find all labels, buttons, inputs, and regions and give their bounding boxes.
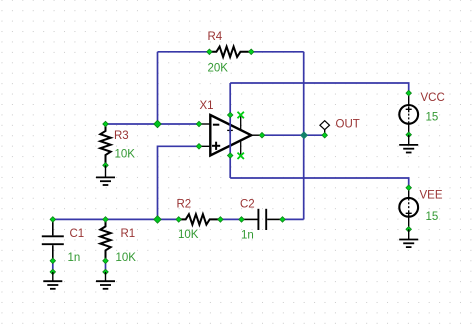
wire plus-input to bottom rail (158, 146, 200, 219)
wire bottom rail (53, 218, 179, 220)
ground at R3 (96, 165, 115, 185)
wire output column vertical (303, 52, 305, 220)
ground at VEE (399, 229, 418, 247)
op-amp output terminal (259, 132, 265, 138)
op-amp X1 (199, 115, 262, 156)
wire VCC rail (230, 83, 409, 93)
no-connect marker top pin (238, 112, 244, 118)
svg-text:15: 15 (426, 211, 439, 223)
svg-text:R2: R2 (177, 199, 192, 211)
voltage source VEE V2 (399, 185, 418, 232)
wire VEE rail (230, 178, 409, 188)
svg-text:X1: X1 (200, 100, 214, 112)
svg-text:R1: R1 (121, 228, 136, 240)
resistor R1 (100, 217, 110, 264)
node OUT terminal (322, 132, 328, 138)
svg-text:R3: R3 (114, 130, 129, 142)
no-connect marker bottom pin (238, 153, 244, 159)
ground at VCC (399, 135, 418, 153)
wire op-amp output to OUT node (262, 134, 325, 136)
wire R4 right to output column (251, 51, 304, 53)
resistor R3 (100, 121, 110, 168)
op-amp input terminal plus (196, 144, 202, 150)
voltage source VCC V1 (399, 90, 418, 137)
wire minus-input rail (106, 123, 200, 125)
svg-text:10K: 10K (116, 252, 137, 264)
node minus-input junction (154, 120, 162, 128)
wire op-amp supply vertical (229, 83, 231, 178)
svg-text:VEE: VEE (420, 189, 443, 201)
wire R1 ground stub (105, 261, 107, 272)
svg-text:C2: C2 (240, 199, 255, 211)
wire C1 ground stub (52, 261, 54, 272)
svg-text:10K: 10K (178, 229, 199, 241)
svg-text:C1: C1 (70, 228, 85, 240)
node bottom junction (154, 216, 162, 224)
wire R2 to C2 (220, 218, 241, 220)
op-amp V+ terminal (227, 112, 233, 118)
resistor R4 (207, 47, 254, 57)
wire to R4 left (158, 51, 210, 53)
resistor R2 (176, 214, 223, 224)
svg-text:VCC: VCC (421, 92, 445, 104)
svg-text:R4: R4 (208, 31, 223, 43)
capacitor C1 (42, 217, 64, 264)
op-amp input terminal minus (196, 121, 202, 127)
svg-text:15: 15 (426, 112, 439, 124)
svg-text:1n: 1n (68, 252, 81, 264)
svg-text:OUT: OUT (336, 118, 360, 130)
capacitor C2 (239, 209, 286, 230)
svg-text:20K: 20K (208, 63, 229, 75)
svg-text:1n: 1n (241, 230, 254, 242)
output probe OUT (320, 121, 330, 136)
ground at R1 (96, 269, 115, 289)
wire C2 to output column (283, 218, 304, 220)
svg-text:10K: 10K (115, 149, 136, 161)
node output junction (300, 131, 308, 139)
ground at C1 (43, 269, 62, 289)
op-amp V- terminal (227, 153, 233, 159)
wire feedback up from minus node (157, 52, 159, 124)
